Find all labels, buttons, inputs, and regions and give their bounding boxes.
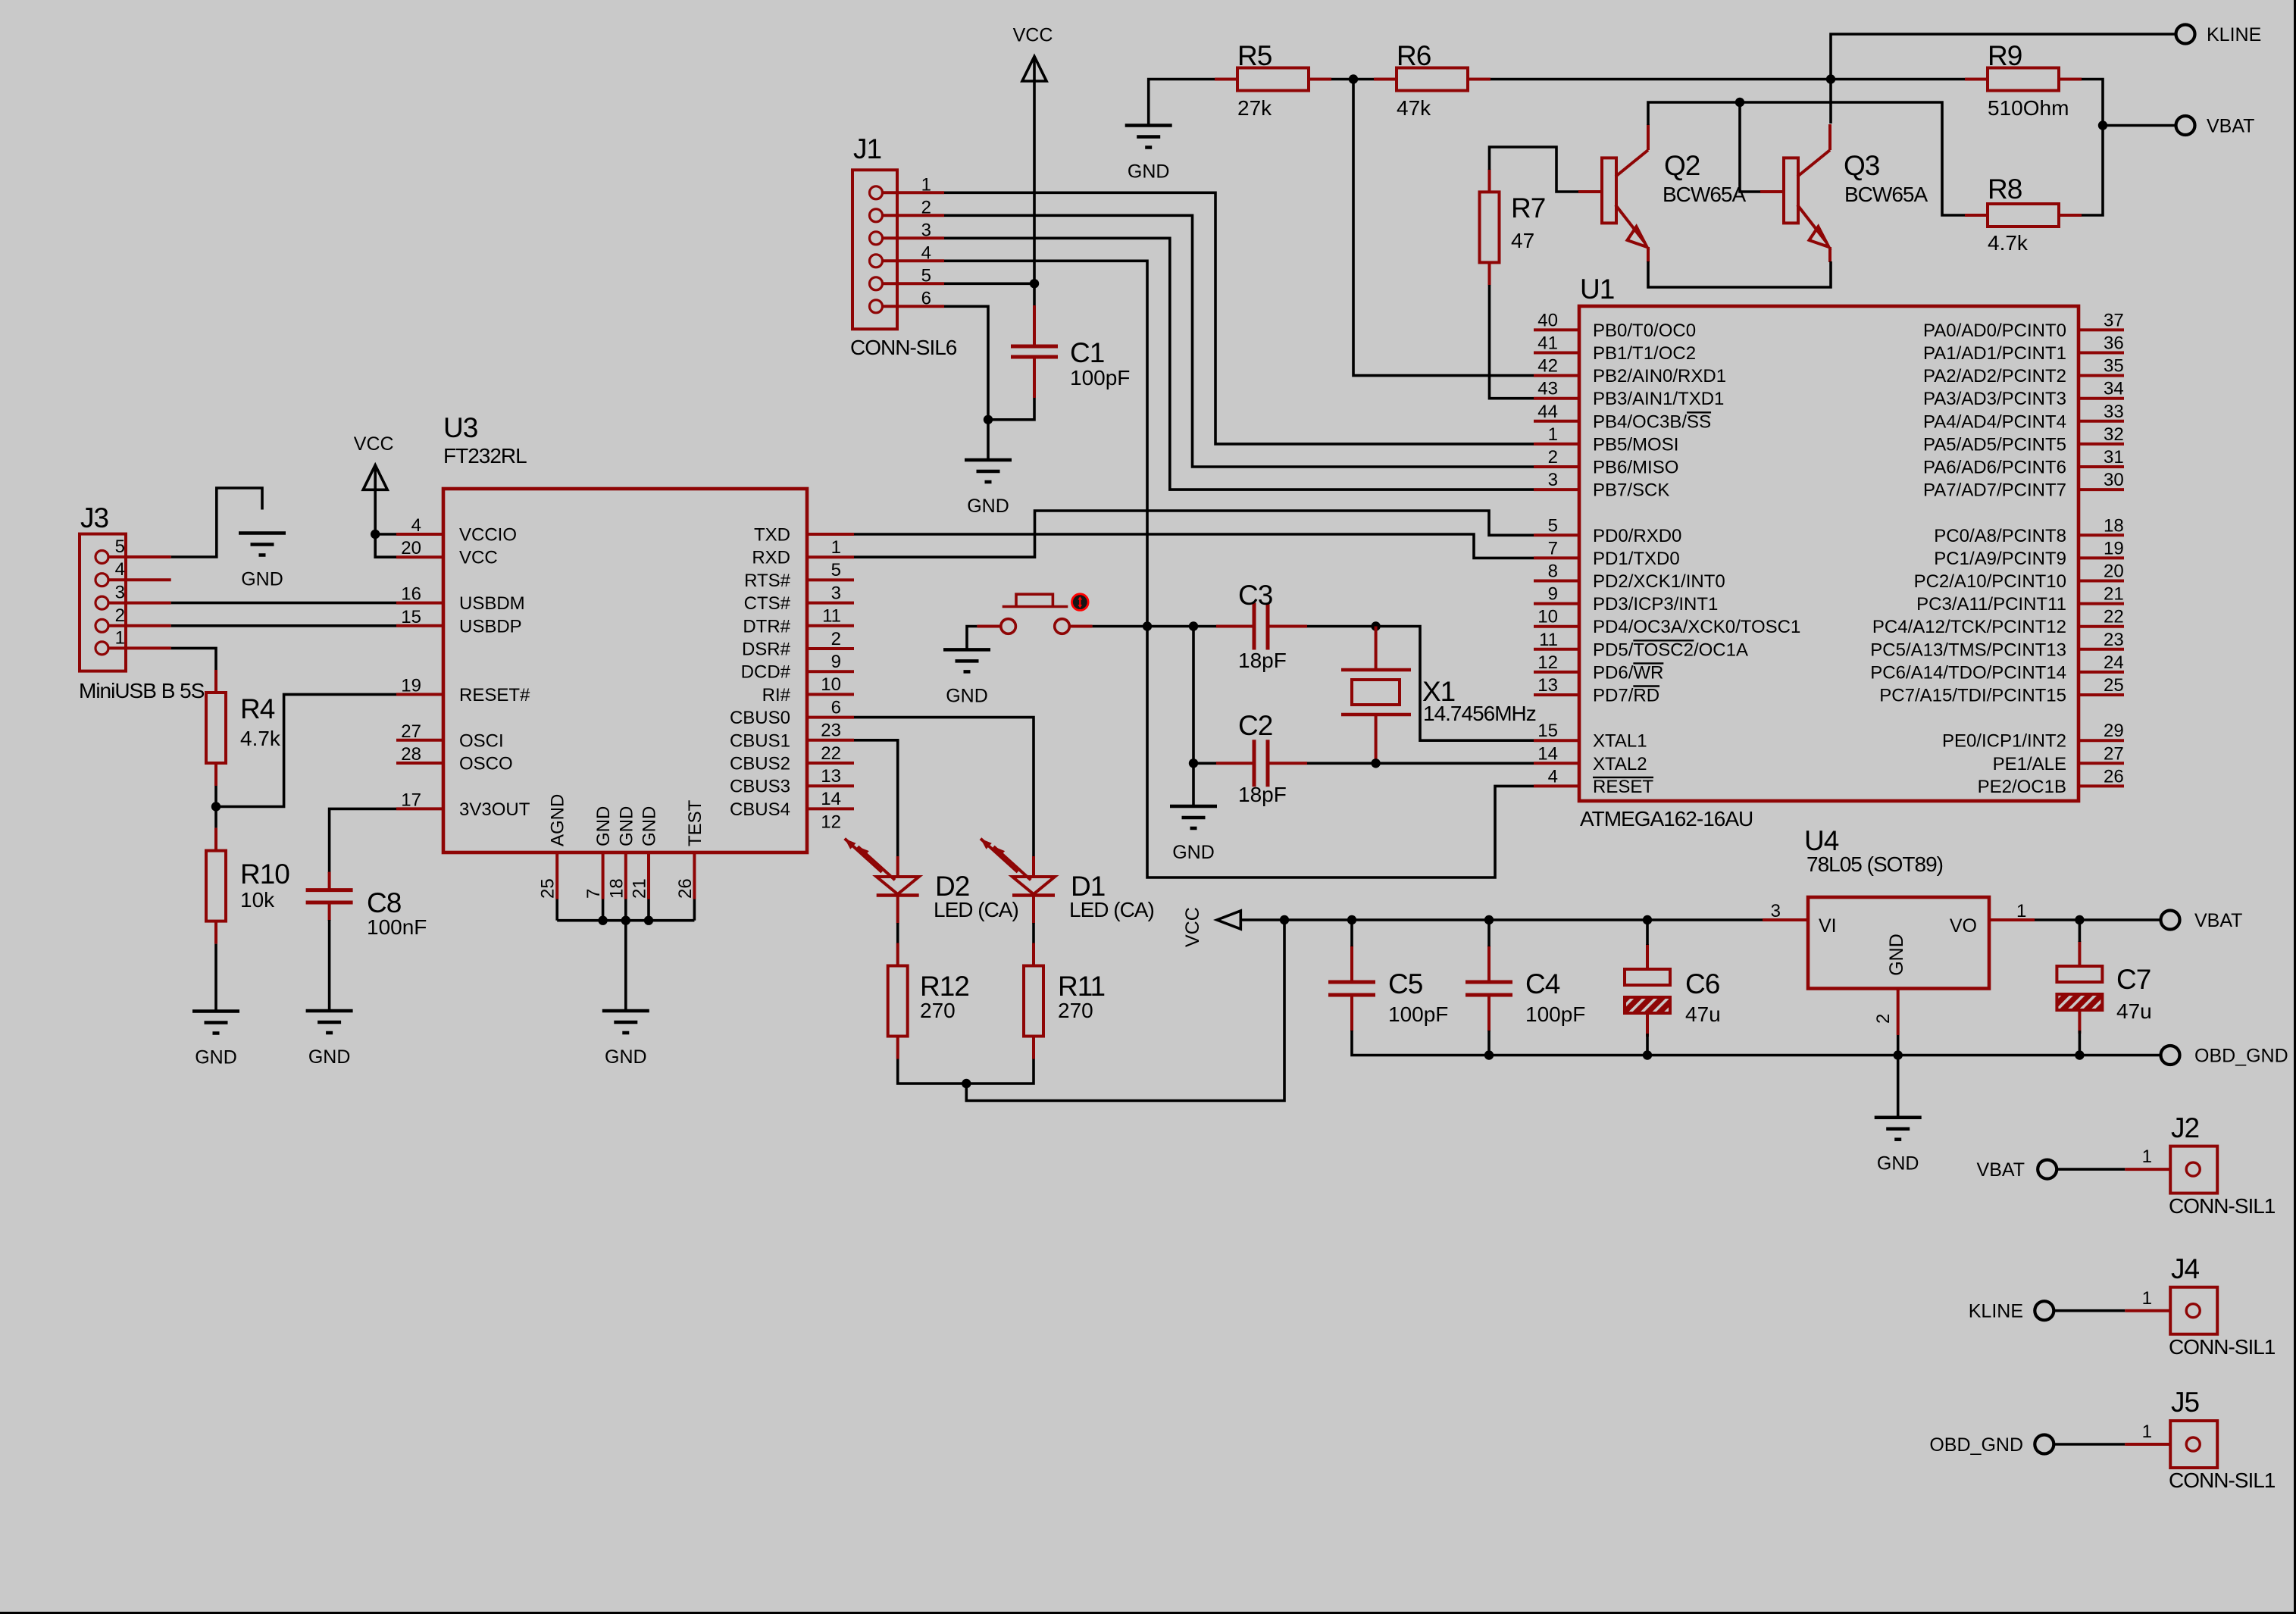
svg-text:GND: GND [241, 569, 283, 590]
resistor R5 [1215, 78, 1237, 81]
svg-text:7: 7 [583, 889, 604, 899]
svg-text:C3: C3 [1238, 580, 1272, 611]
junction X1 bottom [1371, 759, 1380, 768]
wire J3 pin1 to R4 [171, 648, 216, 670]
capacitor C5 100pF [1350, 946, 1353, 982]
svg-text:9: 9 [1548, 584, 1558, 605]
svg-text:28: 28 [401, 744, 421, 765]
svg-text:OBD_GND: OBD_GND [2194, 1046, 2288, 1067]
svg-text:OSCO: OSCO [459, 754, 513, 774]
push button (reset switch) [1001, 619, 1016, 634]
window border bottom [0, 1612, 2296, 1614]
junction button/J1.4 riser [1143, 621, 1152, 630]
svg-text:10: 10 [1537, 607, 1558, 627]
wire Q3 base drop [1740, 102, 1760, 192]
svg-text:PA2/AD2/PCINT2: PA2/AD2/PCINT2 [1923, 366, 2066, 386]
svg-text:AGND: AGND [548, 794, 568, 846]
svg-text:1: 1 [115, 627, 125, 648]
svg-text:MiniUSB B 5S: MiniUSB B 5S [79, 679, 205, 702]
junction C1/J1.6 GND [984, 415, 993, 424]
svg-text:RESET#: RESET# [459, 685, 530, 705]
wire U3 TXD to U1 PD1 [854, 534, 1534, 558]
wire VCC rail [1240, 918, 1763, 921]
wire bus to GND [624, 921, 627, 1011]
wire VBAT to J2 [2057, 1168, 2125, 1171]
svg-text:27: 27 [2104, 743, 2124, 764]
svg-text:510Ohm: 510Ohm [1988, 96, 2069, 120]
wire junction to U3 RESET# [216, 694, 396, 806]
svg-text:GND: GND [967, 496, 1009, 517]
svg-text:USBDM: USBDM [459, 593, 525, 614]
junction C4 bottom [1484, 1050, 1494, 1059]
svg-text:CBUS0: CBUS0 [730, 708, 790, 728]
U1 pin 9 (PD3/ICP3/INT1) [1534, 602, 1579, 605]
svg-text:BCW65A: BCW65A [1663, 183, 1746, 206]
LED D2 (CBUS1) [896, 856, 899, 877]
svg-text:12: 12 [821, 812, 841, 832]
svg-text:GND: GND [1877, 1153, 1919, 1175]
wire U3 3V3OUT to C8 [330, 809, 396, 873]
U3 pin 19 (RESET#) [396, 693, 443, 696]
svg-text:47u: 47u [1685, 1002, 1721, 1026]
svg-text:LED (CA): LED (CA) [1069, 898, 1154, 921]
U1 pin 35 (PA2/AD2/PCINT2) [2079, 374, 2124, 377]
U1 pin 34 (PA3/AD3/PCINT3) [2079, 397, 2124, 400]
U1 pin 44 (PB4/OC3B/SS) [1534, 420, 1579, 423]
ground symbol below R10 [192, 1009, 239, 1013]
wire J3 pin5 to GND [171, 488, 262, 557]
voltage regulator U4 78L05 [1808, 897, 1989, 989]
U1 pin 31 (PA6/AD6/PCINT6) [2079, 465, 2124, 468]
svg-text:PD6/WR: PD6/WR [1593, 662, 1663, 683]
U1 pin 42 (PB2/AIN0/RXD1) [1534, 374, 1579, 377]
wire U3 CBUS1 to D2 [854, 740, 898, 856]
terminal KLINE [2176, 25, 2195, 44]
U3 pin 26 (TEST) [693, 852, 696, 899]
svg-text:PA6/AD6/PCINT6: PA6/AD6/PCINT6 [1923, 458, 2066, 478]
svg-text:270: 270 [1058, 999, 1093, 1022]
svg-text:R12: R12 [920, 971, 969, 1002]
svg-text:1: 1 [831, 537, 841, 558]
svg-text:PE2/OC1B: PE2/OC1B [1978, 777, 2066, 797]
svg-text:3: 3 [1548, 470, 1558, 490]
resistor R12 270 [896, 943, 899, 966]
svg-text:VBAT: VBAT [2207, 116, 2254, 137]
svg-text:VBAT: VBAT [2194, 910, 2242, 931]
svg-text:GND: GND [946, 685, 988, 706]
svg-text:4: 4 [921, 242, 931, 263]
U1 pin 24 (PC6/A14/TDO/PCINT14) [2079, 671, 2124, 674]
svg-text:1: 1 [921, 174, 931, 195]
svg-text:21: 21 [2104, 584, 2124, 605]
svg-text:PA7/AD7/PCINT7: PA7/AD7/PCINT7 [1923, 480, 2066, 501]
svg-text:25: 25 [538, 878, 558, 899]
wire VCC to VCCIO/VCC pins [375, 489, 396, 557]
svg-text:25: 25 [2104, 675, 2124, 696]
svg-text:GND: GND [195, 1047, 237, 1068]
svg-text:1: 1 [2016, 901, 2026, 921]
svg-text:PB4/OC3B/SS: PB4/OC3B/SS [1593, 411, 1711, 432]
resistor R6 [1374, 78, 1397, 81]
svg-text:20: 20 [2104, 561, 2124, 582]
U1 pin 43 (PB3/AIN1/TXD1) [1534, 397, 1579, 400]
transistor Q3 BCW65A [1784, 158, 1798, 223]
wire J1 pin6 to GND [944, 306, 988, 420]
svg-text:15: 15 [401, 607, 421, 627]
svg-text:33: 33 [2104, 402, 2124, 422]
svg-text:R7: R7 [1511, 192, 1545, 224]
U1 pin 33 (PA4/AD4/PCINT4) [2079, 420, 2124, 423]
svg-text:35: 35 [2104, 356, 2124, 377]
svg-text:KLINE: KLINE [2207, 24, 2261, 45]
svg-text:KLINE: KLINE [1969, 1301, 2023, 1322]
svg-text:PD4/OC3A/XCK0/TOSC1: PD4/OC3A/XCK0/TOSC1 [1593, 617, 1800, 637]
junction Q3 base branch [1735, 98, 1744, 107]
connector J1 CONN-SIL6 [852, 170, 897, 329]
junction C6 bottom [1643, 1050, 1652, 1059]
svg-text:21: 21 [630, 878, 650, 899]
power flag VCC (U3) [363, 465, 387, 490]
U1 pin 11 (PD5/TOSC2/OC1A) [1534, 648, 1579, 651]
svg-text:40: 40 [1537, 310, 1558, 330]
svg-text:5: 5 [1548, 515, 1558, 536]
wire R7 bottom to U1 PB3 [1490, 285, 1534, 399]
junction GND pin21 [644, 916, 653, 925]
svg-text:14: 14 [1537, 743, 1558, 764]
wire U4 VO to VBAT [2035, 918, 2161, 921]
svg-text:PD2/XCK1/INT0: PD2/XCK1/INT0 [1593, 571, 1725, 592]
svg-text:PB0/T0/OC0: PB0/T0/OC0 [1593, 321, 1696, 341]
junction LED bus [962, 1079, 971, 1088]
svg-text:GND: GND [1172, 842, 1215, 863]
svg-text:PD0/RXD0: PD0/RXD0 [1593, 526, 1681, 546]
svg-text:16: 16 [401, 584, 421, 605]
wire R7 top to Q2 base [1490, 147, 1579, 192]
U1 pin 27 (PE1/ALE) [2079, 762, 2124, 765]
svg-text:3V3OUT: 3V3OUT [459, 799, 530, 820]
wire J1 pin5 to VCC [944, 282, 1034, 285]
svg-text:30: 30 [2104, 470, 2124, 490]
U3 pin 14 (CBUS3) [807, 784, 854, 787]
U3 pin 2 (DTR#) [807, 624, 854, 627]
svg-text:7: 7 [1548, 538, 1558, 558]
microcontroller U1 ATMEGA162-16AU body [1579, 306, 2079, 801]
svg-text:DTR#: DTR# [743, 616, 790, 637]
wire KLINE vertical + horizontal [1831, 34, 2176, 124]
svg-text:LED (CA): LED (CA) [934, 898, 1018, 921]
svg-text:26: 26 [2104, 766, 2124, 787]
U3 pin 18 (GND) [624, 852, 627, 899]
svg-text:31: 31 [2104, 447, 2124, 468]
svg-text:GND: GND [605, 1046, 647, 1068]
svg-text:U3: U3 [443, 412, 477, 443]
resistor R4 4.7k [214, 670, 217, 693]
capacitor C6 47u [1646, 944, 1649, 969]
U3 pin 28 (OSCO) [396, 762, 443, 765]
svg-text:18: 18 [606, 878, 627, 899]
svg-text:CBUS1: CBUS1 [730, 730, 790, 751]
U3 pin 10 (DCD#) [807, 670, 854, 673]
wire rail junction down to U1 PB2 [1353, 80, 1534, 376]
svg-text:11: 11 [1539, 630, 1558, 650]
svg-text:PC3/A11/PCINT11: PC3/A11/PCINT11 [1916, 594, 2066, 615]
wire D1 to R11 [1032, 923, 1035, 943]
svg-text:D2: D2 [935, 871, 969, 902]
resistor R9 [1965, 78, 1988, 81]
svg-text:XTAL1: XTAL1 [1593, 731, 1647, 752]
U3 pin 23 (CBUS0) [807, 716, 854, 719]
svg-text:PE0/ICP1/INT2: PE0/ICP1/INT2 [1942, 731, 2066, 752]
junction GND pin18 [621, 916, 630, 925]
junction C7 top [2075, 915, 2084, 924]
svg-text:J2: J2 [2171, 1112, 2199, 1143]
svg-text:D1: D1 [1071, 871, 1105, 902]
svg-text:OBD_GND: OBD_GND [1929, 1434, 2023, 1456]
junction C4 top [1484, 915, 1494, 924]
wire C1 bottom to GND [988, 398, 1034, 460]
wire KLINE to J4 [2054, 1309, 2125, 1312]
U1 pin 12 (PD6/WR) [1534, 671, 1579, 674]
U1 pin 8 (PD2/XCK1/INT0) [1534, 580, 1579, 583]
svg-text:9: 9 [831, 652, 841, 672]
svg-text:PC6/A14/TDO/PCINT14: PC6/A14/TDO/PCINT14 [1870, 662, 2066, 683]
U3 pin 13 (CBUS2) [807, 762, 854, 765]
svg-text:PB2/AIN0/RXD1: PB2/AIN0/RXD1 [1593, 366, 1726, 386]
U1 pin 25 (PC7/A15/TDI/PCINT15) [2079, 693, 2124, 696]
wire C3 to XTAL1 [1307, 627, 1534, 741]
svg-text:C6: C6 [1685, 968, 1719, 999]
U1 pin 40 (PB0/T0/OC0) [1534, 328, 1579, 331]
svg-text:44: 44 [1537, 402, 1558, 422]
svg-text:5: 5 [921, 265, 931, 286]
svg-text:PB3/AIN1/TXD1: PB3/AIN1/TXD1 [1593, 389, 1724, 409]
svg-text:6: 6 [921, 288, 931, 308]
svg-text:VCC: VCC [459, 548, 498, 568]
svg-text:Q2: Q2 [1664, 150, 1700, 181]
U1 pin 20 (PC2/A10/PCINT10) [2079, 580, 2124, 583]
ground symbol near R5 [1125, 124, 1172, 127]
svg-text:XTAL2: XTAL2 [1593, 754, 1647, 774]
svg-text:270: 270 [920, 999, 956, 1022]
svg-text:PA4/AD4/PCINT4: PA4/AD4/PCINT4 [1923, 411, 2066, 432]
crystal X1 14.7456MHz [1375, 627, 1378, 671]
U3 pin 16 (USBDM) [396, 602, 443, 605]
terminal OBD_GND (J5) [2035, 1435, 2054, 1454]
svg-text:J5: J5 [2171, 1387, 2200, 1418]
wire U4 GND to rail [1897, 1035, 1900, 1117]
junction LED riser [1280, 915, 1289, 924]
U1 pin 15 (XTAL1) [1534, 739, 1579, 742]
svg-text:42: 42 [1537, 356, 1558, 377]
wire button right to C3/X1 [1093, 625, 1216, 628]
connector J4 CONN-SIL1 [2170, 1287, 2217, 1334]
svg-text:19: 19 [401, 675, 421, 696]
svg-text:RESET: RESET [1593, 777, 1653, 797]
ground symbol below U4 [1875, 1115, 1922, 1119]
svg-text:VCC: VCC [1182, 907, 1203, 947]
svg-text:47u: 47u [2116, 999, 2152, 1023]
svg-text:100pF: 100pF [1525, 1002, 1585, 1026]
svg-text:47k: 47k [1397, 96, 1431, 120]
svg-text:100pF: 100pF [1388, 1002, 1448, 1026]
wire Q2 collector to R8 branch (y=135) [1648, 102, 1965, 215]
svg-text:14.7456MHz: 14.7456MHz [1423, 702, 1536, 725]
svg-text:27k: 27k [1237, 96, 1272, 120]
wire D2 to R12 [896, 923, 899, 943]
wire R5 to R6 [1331, 78, 1374, 81]
wire J3 pin3 to USBDM [171, 602, 396, 605]
wire Q2/Q3 emitters bridge [1648, 261, 1831, 287]
svg-text:PD3/ICP3/INT1: PD3/ICP3/INT1 [1593, 594, 1718, 615]
svg-text:PB7/SCK: PB7/SCK [1593, 480, 1669, 501]
svg-text:2: 2 [1873, 1014, 1894, 1024]
svg-text:J3: J3 [80, 502, 108, 533]
U1 pin 37 (PA0/AD0/PCINT0) [2079, 328, 2124, 331]
svg-text:12: 12 [1537, 652, 1558, 673]
U1 pin 10 (PD4/OC3A/XCK0/TOSC1) [1534, 625, 1579, 628]
svg-text:VI: VI [1819, 915, 1837, 937]
junction VCC / J1 pin5 [1030, 279, 1039, 288]
svg-text:PD7/RD: PD7/RD [1593, 686, 1659, 706]
U1 pin 4 (RESET) [1534, 784, 1579, 787]
svg-text:PC7/A15/TDI/PCINT15: PC7/A15/TDI/PCINT15 [1879, 686, 2066, 706]
svg-text:18: 18 [2104, 515, 2124, 536]
svg-text:43: 43 [1537, 379, 1558, 399]
svg-text:PA0/AD0/PCINT0: PA0/AD0/PCINT0 [1923, 321, 2066, 341]
wire button left to GND [967, 627, 977, 650]
svg-text:PA1/AD1/PCINT1: PA1/AD1/PCINT1 [1923, 343, 2066, 364]
svg-text:5: 5 [115, 536, 125, 557]
svg-text:PD5/TOSC2/OC1A: PD5/TOSC2/OC1A [1593, 640, 1748, 660]
svg-text:GND: GND [616, 806, 637, 846]
U1 pin 2 (PB6/MISO) [1534, 465, 1579, 468]
wire R10 to GND [214, 944, 217, 1011]
wire R4 bottom junction [214, 786, 217, 828]
wire R9 to VBAT corner [2082, 80, 2103, 216]
resistor R7 [1488, 169, 1491, 192]
svg-text:13: 13 [1537, 675, 1558, 696]
junction X1 top [1371, 621, 1380, 630]
U1 pin 5 (PD0/RXD0) [1534, 533, 1579, 536]
svg-text:CONN-SIL1: CONN-SIL1 [2169, 1335, 2276, 1359]
U1 pin 21 (PC3/A11/PCINT11) [2079, 602, 2124, 605]
svg-text:4.7k: 4.7k [1988, 231, 2029, 255]
svg-text:RXD: RXD [752, 548, 790, 568]
terminal OBD_GND [2161, 1046, 2180, 1065]
svg-text:PB6/MISO: PB6/MISO [1593, 458, 1678, 478]
U3 pin 9 (DSR#) [807, 647, 854, 650]
connector J3 MiniUSB B 5S [80, 534, 126, 671]
wire C8 to GND [328, 920, 331, 1011]
U1 pin 1 (PB5/MOSI) [1534, 443, 1579, 446]
wire OBD_GND to J5 [2054, 1443, 2125, 1446]
wire J1 pin3 to U1 PB7 [944, 238, 1534, 490]
wire J1 pin1 to U1 PB5 [944, 192, 1534, 444]
svg-text:78L05 (SOT89): 78L05 (SOT89) [1806, 852, 1943, 876]
wire ground rail [1352, 1031, 2161, 1056]
svg-text:TXD: TXD [754, 525, 790, 546]
U1 pin 22 (PC4/A12/TCK/PCINT12) [2079, 625, 2124, 628]
terminal VBAT (bottom) [2161, 911, 2180, 930]
U1 pin 30 (PA7/AD7/PCINT7) [2079, 488, 2124, 491]
svg-text:22: 22 [821, 743, 841, 764]
svg-text:23: 23 [821, 721, 841, 741]
junction R4/R10/RESET# [211, 802, 221, 811]
svg-text:R11: R11 [1058, 971, 1105, 1002]
junction VCCIO [371, 530, 380, 539]
svg-text:VCC: VCC [1013, 25, 1053, 46]
U3 pin 7 (GND) [602, 852, 605, 899]
svg-text:GND: GND [640, 806, 660, 846]
U3 pin 25 (AGND) [555, 852, 558, 899]
svg-text:PC4/A12/TCK/PCINT12: PC4/A12/TCK/PCINT12 [1872, 617, 2066, 637]
svg-text:4.7k: 4.7k [240, 727, 281, 750]
svg-text:CONN-SIL1: CONN-SIL1 [2169, 1194, 2276, 1218]
svg-text:U1: U1 [1580, 274, 1614, 305]
svg-text:VBAT: VBAT [1977, 1159, 2025, 1181]
svg-text:3: 3 [1771, 901, 1781, 921]
transistor Q2 BCW65A [1602, 158, 1616, 223]
svg-text:2: 2 [115, 605, 125, 626]
wire C2 to XTAL2 [1307, 762, 1534, 765]
svg-text:FT232RL: FT232RL [443, 444, 527, 468]
svg-text:18pF: 18pF [1238, 783, 1287, 806]
U3 pin 20 (VCC) [396, 555, 443, 558]
ground symbol below C1 [965, 458, 1012, 462]
svg-text:PA5/AD5/PCINT5: PA5/AD5/PCINT5 [1923, 434, 2066, 455]
junction VBAT [2098, 120, 2107, 130]
U3 pin 22 (CBUS1) [807, 739, 854, 742]
svg-text:2: 2 [921, 197, 931, 217]
capacitor C4 100pF [1487, 946, 1491, 982]
capacitor C8 100nF [328, 872, 331, 890]
ground symbol below U3 [602, 1009, 649, 1013]
svg-text:R5: R5 [1237, 40, 1272, 71]
U1 pin 14 (XTAL2) [1534, 762, 1579, 765]
svg-text:36: 36 [2104, 333, 2124, 354]
U1 pin 36 (PA1/AD1/PCINT1) [2079, 352, 2124, 355]
svg-text:23: 23 [2104, 630, 2124, 650]
svg-text:4: 4 [115, 559, 125, 580]
svg-text:DSR#: DSR# [742, 640, 791, 660]
svg-text:R4: R4 [240, 693, 275, 724]
svg-text:BCW65A: BCW65A [1844, 183, 1928, 206]
junction C3 left [1189, 621, 1198, 630]
svg-text:C7: C7 [2116, 964, 2151, 995]
svg-text:3: 3 [831, 583, 841, 603]
svg-text:1: 1 [1548, 424, 1558, 445]
svg-text:PB1/T1/OC2: PB1/T1/OC2 [1593, 343, 1696, 364]
U1 pin 3 (PB7/SCK) [1534, 488, 1579, 491]
svg-text:26: 26 [675, 878, 696, 899]
svg-text:17: 17 [401, 790, 421, 810]
U1 pin 32 (PA5/AD5/PCINT5) [2079, 443, 2124, 446]
svg-text:4: 4 [411, 515, 421, 536]
junction U4 GND [1894, 1050, 1903, 1059]
U1 pin 7 (PD1/TXD0) [1534, 556, 1579, 559]
wire U3 AGND/GND/TEST bus [555, 899, 558, 921]
terminal KLINE (J4) [2035, 1301, 2054, 1320]
svg-text:27: 27 [401, 721, 421, 742]
U1 pin 41 (PB1/T1/OC2) [1534, 352, 1579, 355]
svg-text:10k: 10k [240, 888, 275, 912]
svg-text:22: 22 [2104, 607, 2124, 627]
svg-text:37: 37 [2104, 310, 2124, 330]
svg-text:24: 24 [2104, 652, 2124, 673]
svg-text:5: 5 [831, 560, 841, 580]
svg-text:6: 6 [831, 697, 841, 718]
LED D1 (CBUS0) [1032, 856, 1035, 877]
